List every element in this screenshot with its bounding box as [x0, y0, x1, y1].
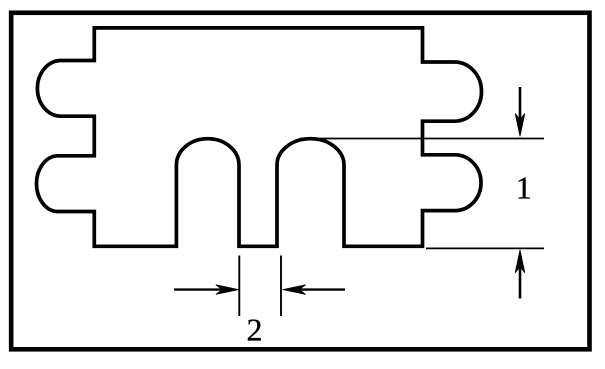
svg-text:1: 1 [516, 169, 532, 205]
dimension 2 left extension line [238, 256, 240, 317]
dimension 2 left-pointing arrow [283, 285, 345, 295]
dimension 2 right extension line [280, 256, 282, 317]
dimension 2 right-pointing arrow [174, 285, 239, 295]
dimension 1 upper extension line [300, 138, 544, 140]
svg-text:2: 2 [247, 312, 263, 348]
dimension 1 down arrow [515, 87, 525, 136]
dimension 1 lower extension line [426, 247, 544, 249]
dimension 1 up arrow [515, 250, 525, 299]
part outline [37, 28, 482, 246]
